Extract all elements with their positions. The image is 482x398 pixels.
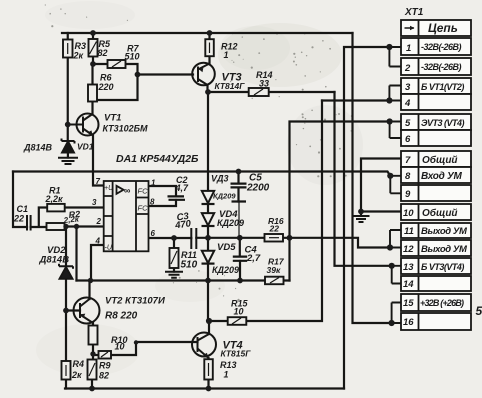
resistor R2 xyxy=(47,223,65,230)
svg-text:Вход УМ: Вход УМ xyxy=(421,171,462,182)
node VD2 top R2 line xyxy=(63,224,68,229)
svg-text:R6: R6 xyxy=(100,73,112,83)
wire pin5-6 line to node X xyxy=(290,122,390,281)
svg-text:Выход УМ: Выход УМ xyxy=(421,244,468,255)
svg-text:2к: 2к xyxy=(73,51,84,61)
svg-text:R4: R4 xyxy=(73,359,85,369)
node pin6 R11 xyxy=(171,235,177,241)
svg-text:VT1: VT1 xyxy=(104,113,121,124)
svg-text:Б VT3(VT4): Б VT3(VT4) xyxy=(421,262,464,272)
node minus-U line diode column xyxy=(205,278,211,284)
capacitor C2 xyxy=(168,196,186,199)
node pin16 xyxy=(389,320,395,326)
svg-text:1: 1 xyxy=(224,370,229,380)
svg-text:5: 5 xyxy=(476,304,482,318)
diode VD5 xyxy=(202,251,215,264)
wire C3 to R16 line to pins 11-12 xyxy=(196,238,390,248)
svg-text:VD1: VD1 xyxy=(77,142,94,152)
svg-text:2: 2 xyxy=(404,63,411,74)
svg-text:R3: R3 xyxy=(75,41,87,51)
svg-text:2200: 2200 xyxy=(246,183,270,194)
ground for VD1 xyxy=(58,158,78,164)
svg-text:10: 10 xyxy=(403,208,414,219)
svg-text:КД209: КД209 xyxy=(213,192,236,201)
svg-text:FC: FC xyxy=(138,204,149,213)
node R7 riser VT3 base xyxy=(135,72,141,78)
wire C4 column xyxy=(239,238,241,281)
svg-text:22: 22 xyxy=(269,224,280,234)
svg-text:2,2к: 2,2к xyxy=(45,194,64,204)
wire left rail R3 to VT1 base xyxy=(67,33,69,141)
svg-text:10: 10 xyxy=(115,342,125,352)
connector bracket pins 15-16 xyxy=(392,303,401,324)
resistor R17 xyxy=(265,277,284,285)
wire opamp pin8 to C2 xyxy=(149,200,177,206)
svg-text:VT2 КТ3107И: VT2 КТ3107И xyxy=(105,296,165,307)
op-amp DA1 xyxy=(104,181,149,251)
wire bottom bus xyxy=(65,387,344,389)
svg-text:КД209: КД209 xyxy=(217,218,244,228)
svg-text:6: 6 xyxy=(405,134,411,145)
resistor R15 xyxy=(228,317,247,325)
svg-text:6: 6 xyxy=(151,229,156,238)
node pin13 xyxy=(389,263,395,269)
svg-text:R8 220: R8 220 xyxy=(105,311,138,322)
svg-text:Д814В: Д814В xyxy=(39,255,70,266)
svg-text:7: 7 xyxy=(96,177,101,186)
wire R5 bottom to R7/R6 node xyxy=(93,57,108,65)
transistor VT4 xyxy=(192,333,216,359)
diode VD3 xyxy=(202,191,215,204)
svg-text:DA1 КР544УД2Б: DA1 КР544УД2Б xyxy=(116,153,199,165)
svg-text:1: 1 xyxy=(406,43,411,54)
svg-text:15: 15 xyxy=(403,298,414,309)
wire R15 line to x322 riser xyxy=(208,101,322,322)
capacitor C1 xyxy=(27,215,31,231)
svg-text:2,2к: 2,2к xyxy=(62,214,80,225)
wire VT2 collector xyxy=(88,281,90,300)
wire C5 column xyxy=(237,172,239,202)
resistor R9 xyxy=(88,360,97,380)
resistor R14 xyxy=(249,88,269,96)
transistor VT2 xyxy=(74,298,100,324)
resistor R6 xyxy=(88,85,97,102)
ground for pin7-10 net xyxy=(353,216,370,222)
wire R10 right riser to VT4 base xyxy=(111,342,198,355)
svg-text:Б VT1(VT2): Б VT1(VT2) xyxy=(421,82,464,92)
svg-text:1: 1 xyxy=(224,50,229,60)
wire C5 foot to R16 line (faint) xyxy=(238,202,240,238)
wire minus-U horizontal y280.5 xyxy=(77,279,290,281)
node R12 top bus xyxy=(207,30,213,36)
wire VT3 collector to diode column xyxy=(206,85,208,92)
wire minus-U drop from R2 line xyxy=(75,227,77,281)
node diode column C3 line xyxy=(205,235,211,241)
svg-text:Выход УМ: Выход УМ xyxy=(421,226,468,237)
wire R6 column / VT1 collector xyxy=(91,64,93,114)
node R9 bottom bus xyxy=(89,386,95,392)
svg-text:Цепь: Цепь xyxy=(428,21,458,35)
svg-text:3: 3 xyxy=(405,82,411,93)
svg-text:КД209: КД209 xyxy=(212,265,239,275)
node R5 R6 R7 xyxy=(90,61,96,67)
node R5 top bus xyxy=(90,30,96,36)
svg-text:4: 4 xyxy=(404,98,411,109)
svg-text:2к: 2к xyxy=(71,370,82,380)
connector bracket pins 5-6 xyxy=(390,122,401,139)
node pin1 xyxy=(386,44,392,50)
wire pin1-2 line down to bottom bus xyxy=(344,47,389,389)
svg-text:12: 12 xyxy=(403,244,414,255)
capacitor C4 xyxy=(233,257,247,261)
svg-text:1: 1 xyxy=(151,179,156,188)
zener diode VD1 xyxy=(62,139,75,153)
svg-text:-32В(-26В): -32В(-26В) xyxy=(421,42,462,52)
wire R5 top lead xyxy=(92,33,94,39)
node R13 bottom bus xyxy=(206,386,212,392)
wire rail2 VD2 column xyxy=(65,227,67,362)
svg-text:+U: +U xyxy=(104,185,114,192)
svg-text:39к: 39к xyxy=(267,265,281,275)
svg-text:+32В (+26В): +32В (+26В) xyxy=(420,298,464,308)
node VT2 base VD2 xyxy=(63,308,69,314)
svg-text:4,7: 4,7 xyxy=(175,183,190,193)
wire VD1 hang lead xyxy=(67,153,69,158)
svg-text:33: 33 xyxy=(259,79,269,89)
diode VD4 xyxy=(202,213,215,226)
svg-text:7: 7 xyxy=(405,155,411,166)
svg-text:ХТ1: ХТ1 xyxy=(404,7,424,18)
svg-text:FC: FC xyxy=(138,187,149,196)
svg-text:8: 8 xyxy=(405,171,411,182)
svg-text:ЭVT3 (VT4): ЭVT3 (VT4) xyxy=(421,118,464,128)
node C5 C4 column R16 line xyxy=(237,235,243,241)
wire R11 drop and ground lead xyxy=(173,238,175,272)
svg-text:220: 220 xyxy=(98,82,114,92)
wire R1 to pin3 xyxy=(65,206,104,208)
resistor R8 xyxy=(89,326,98,345)
resistor R3 xyxy=(63,40,73,58)
svg-text:13: 13 xyxy=(403,262,414,273)
svg-text:∞: ∞ xyxy=(124,186,131,196)
ground for R11 xyxy=(165,272,183,278)
svg-text:2,7: 2,7 xyxy=(246,253,261,264)
wire pin3-4 line xyxy=(322,99,389,101)
svg-text:R13: R13 xyxy=(220,360,237,370)
node C5 input line xyxy=(236,169,242,175)
wire VT2 emitter chain R8 R9 xyxy=(92,323,93,389)
resistor R12 xyxy=(205,39,214,56)
wire top supply bus xyxy=(62,32,353,34)
node R8 R9 R10 xyxy=(90,351,95,356)
wire input feedback line y171.5 xyxy=(13,172,390,176)
resistor R10 xyxy=(99,351,112,359)
svg-text:-32В(-26В): -32В(-26В) xyxy=(421,62,462,72)
resistor R7 xyxy=(108,60,126,68)
connector bracket pins 8-9 xyxy=(390,176,401,194)
resistor R1 xyxy=(47,204,64,212)
connector bracket pins 13-14 xyxy=(392,266,401,284)
wire opamp pin6 to C3 xyxy=(149,237,192,239)
svg-text:R11: R11 xyxy=(181,250,197,260)
node pin4 xyxy=(386,97,392,103)
svg-text:16: 16 xyxy=(403,317,414,328)
svg-text:КТ3102БМ: КТ3102БМ xyxy=(103,124,149,134)
wire R4 bottom to bus xyxy=(65,380,67,389)
wire R10 left lead xyxy=(93,354,99,356)
wire R2 to pin2 xyxy=(65,225,104,227)
transistor VT3 xyxy=(192,63,215,86)
wire VT4 emitter R13 xyxy=(207,358,209,389)
wire VT3 base line xyxy=(138,73,194,75)
wire diode column xyxy=(207,92,209,321)
svg-text:5: 5 xyxy=(405,118,411,129)
node pin12 xyxy=(387,244,393,250)
wire plus32 line to pins15-16 xyxy=(353,33,392,323)
resistor R4 xyxy=(62,361,71,380)
node VT1 base xyxy=(65,122,71,128)
wire pin13 riser and line xyxy=(335,92,392,266)
connector bracket pins 3-4 xyxy=(389,86,401,101)
capacitor C3 xyxy=(191,228,196,249)
resistor R11 xyxy=(170,248,179,268)
svg-text:VD5: VD5 xyxy=(217,242,236,253)
svg-text:10: 10 xyxy=(234,307,244,317)
wire R7 right to riser x137.5 xyxy=(93,64,138,100)
svg-text:3: 3 xyxy=(92,198,97,207)
node pin5 xyxy=(387,118,393,124)
wire input drop x13 to C1 xyxy=(13,172,27,228)
svg-text:22: 22 xyxy=(13,214,24,224)
node X feedback xyxy=(287,235,293,241)
svg-text:510: 510 xyxy=(181,260,198,271)
svg-text:R9: R9 xyxy=(99,361,111,371)
connector bracket pins 11-12 xyxy=(390,230,401,248)
svg-text:8: 8 xyxy=(150,198,155,207)
svg-text:510: 510 xyxy=(125,52,140,62)
wire C1 to R2 and R1 tick xyxy=(31,208,48,228)
connector bracket pins 1-2 xyxy=(389,47,401,67)
capacitor C5 xyxy=(231,184,247,202)
wire R14 line to pin13 riser xyxy=(208,91,335,93)
wire VT4 collector xyxy=(208,321,210,334)
svg-text:КТ815Г: КТ815Г xyxy=(221,349,252,359)
wire VT1 emitter to opamp pin7 xyxy=(93,136,104,186)
svg-text:КТ814Г: КТ814Г xyxy=(215,81,246,91)
connector XT1 table xyxy=(401,20,471,330)
svg-text:9: 9 xyxy=(405,189,411,200)
svg-text:14: 14 xyxy=(403,279,414,290)
svg-text:Общий: Общий xyxy=(422,154,458,166)
svg-text:С1: С1 xyxy=(17,204,29,214)
wire opamp pin1 to C2 xyxy=(149,186,177,196)
node pin8 xyxy=(387,173,393,179)
node minus-U line pin4 xyxy=(88,278,93,283)
svg-text:Общий: Общий xyxy=(422,207,458,219)
svg-text:82: 82 xyxy=(99,371,109,381)
transistor VT1 xyxy=(69,107,99,136)
header arrow symbol xyxy=(405,27,415,29)
resistor R5 xyxy=(89,39,98,57)
svg-text:-U: -U xyxy=(105,245,113,252)
svg-text:4: 4 xyxy=(95,237,101,246)
svg-text:2: 2 xyxy=(96,217,102,226)
node pin10 ground xyxy=(358,209,364,215)
node VT3 collector R14 xyxy=(205,89,211,95)
wire pin4 drop xyxy=(91,245,104,281)
zener diode VD2 xyxy=(59,264,73,279)
svg-text:11: 11 xyxy=(404,226,414,237)
svg-text:VД3: VД3 xyxy=(211,174,229,184)
node VT4 collector R15 xyxy=(206,318,212,324)
svg-text:82: 82 xyxy=(98,48,108,58)
node minus-U drop R2 line xyxy=(74,224,79,229)
svg-text:Д814В: Д814В xyxy=(23,143,53,153)
wire VT2 base lead xyxy=(66,309,80,311)
wire R12 leads xyxy=(208,33,210,64)
wire pin7 ground net xyxy=(361,159,401,216)
resistor R16 xyxy=(265,234,284,242)
node minus-U line C4 xyxy=(237,278,243,284)
resistor R13 xyxy=(204,359,213,379)
